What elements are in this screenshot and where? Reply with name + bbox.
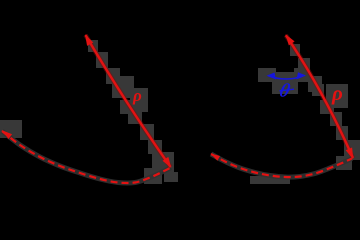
string / radius of curvature rho, right diagram (red line) [286, 35, 353, 158]
angle arc theta (blue double arrow) [268, 75, 304, 79]
svg-text:ρ: ρ [331, 81, 343, 105]
arrowhead at left end of right cycloid [211, 154, 221, 161]
jpeg artifact gray blocks (right diagram) [250, 44, 360, 184]
theta crossbar extension [280, 89, 295, 91]
string / radius of curvature rho, left diagram (red line) [86, 35, 171, 167]
arrowhead bottom of right string [346, 148, 354, 160]
arrowhead top of right string [286, 34, 295, 45]
soft halo under right string [286, 35, 353, 158]
arrowhead left end of blue arc [267, 73, 277, 80]
faint gray under-halo along curves [2, 131, 352, 183]
arrowhead at left end of left cycloid [2, 130, 13, 139]
cycloid path, right diagram (red dashed curve) [211, 154, 352, 177]
jpeg artifact gray blocks (left diagram) [0, 40, 178, 184]
soft halo under left string [86, 35, 171, 167]
arrowhead top of left string [85, 34, 93, 46]
cycloid path, left diagram (red dashed curve) [2, 131, 171, 183]
arrowhead bottom of left string [163, 157, 172, 168]
arrowhead right end of blue arc [297, 72, 307, 79]
svg-text:ρ: ρ [132, 86, 142, 105]
